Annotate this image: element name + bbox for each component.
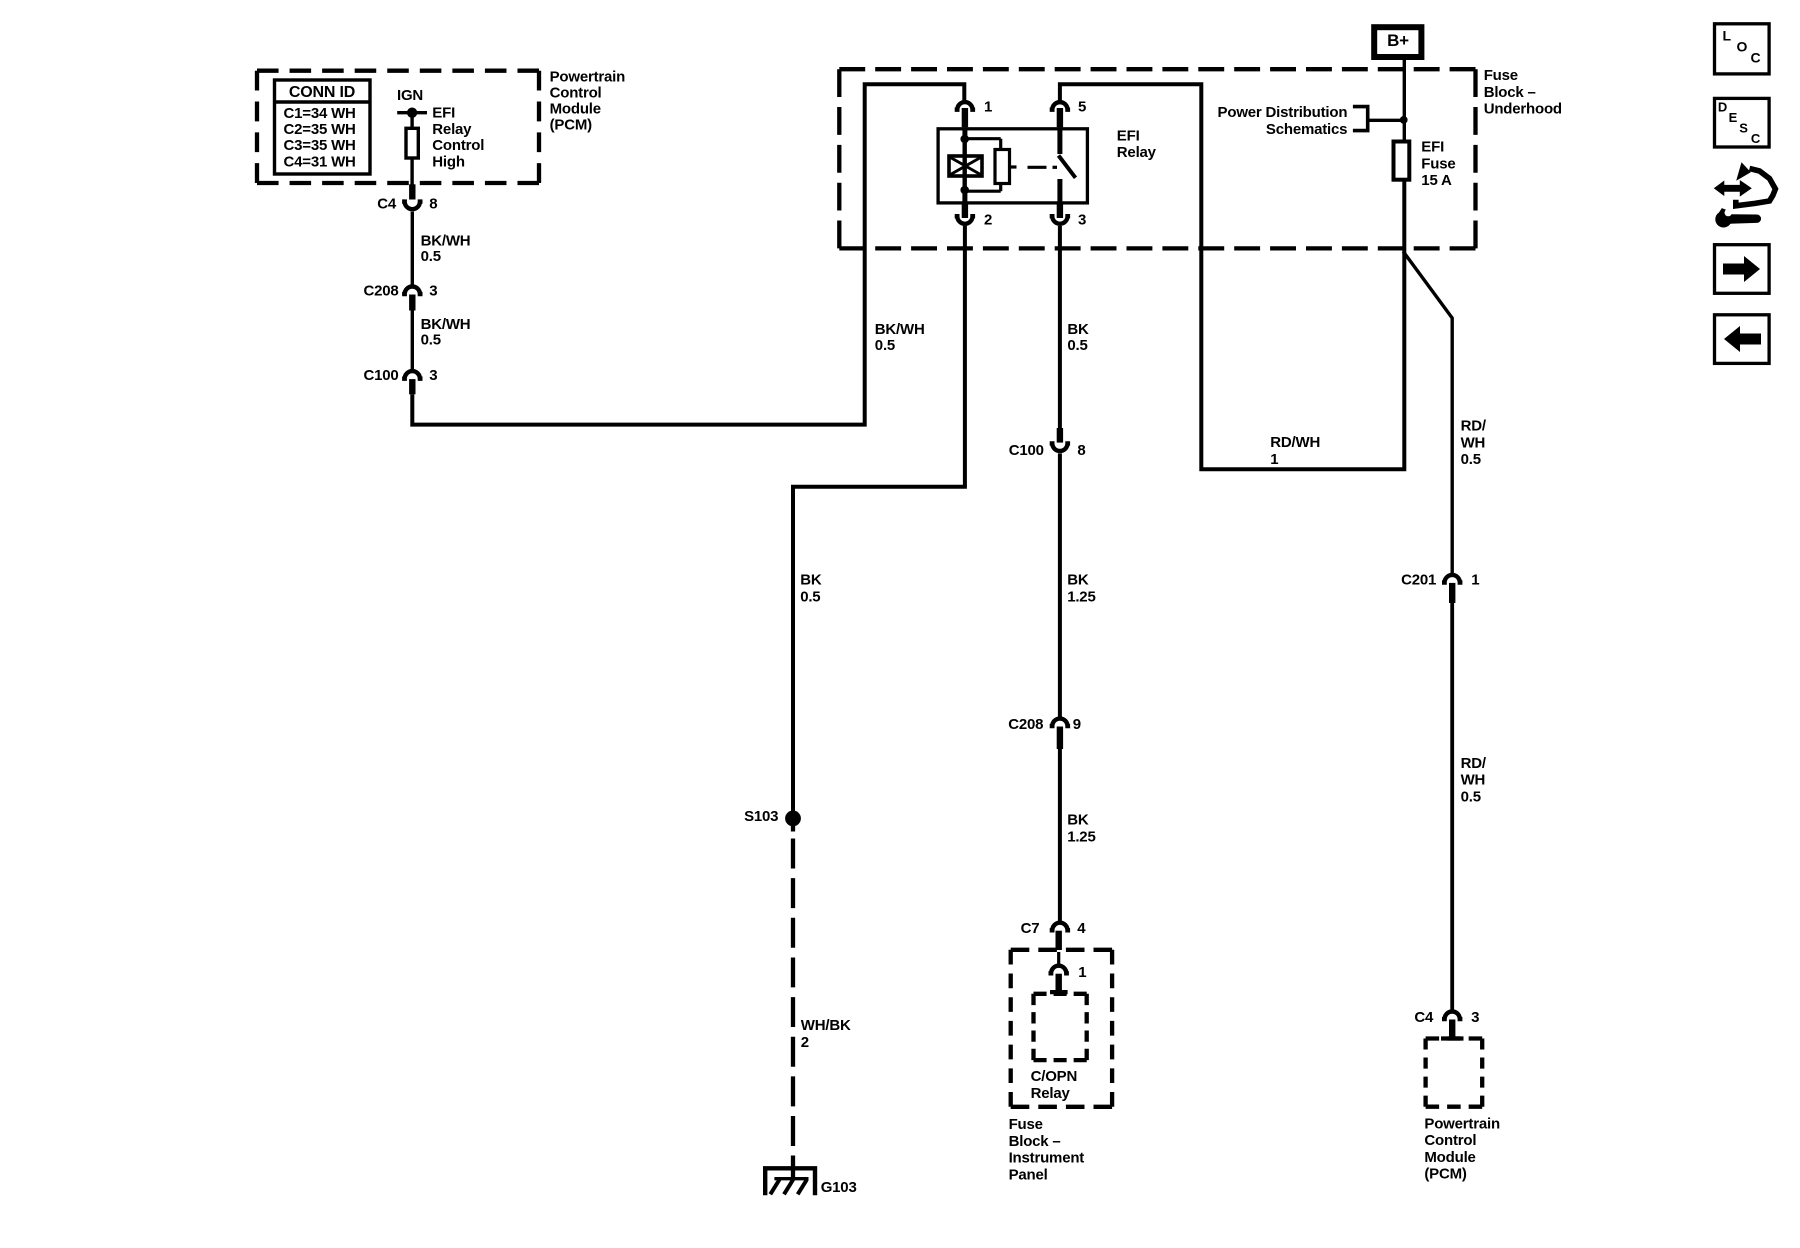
svg-text:8: 8	[1077, 442, 1085, 459]
icon shortcut (loop arrow with wrench)	[1714, 162, 1776, 227]
svg-text:High: High	[432, 154, 465, 171]
ground G103	[765, 1168, 856, 1196]
connector C208 pin 3	[363, 283, 437, 300]
svg-text:Control: Control	[550, 85, 602, 102]
svg-text:1.25: 1.25	[1067, 828, 1095, 845]
connector C100 pin 3	[363, 367, 437, 384]
wire C7-4 into fuse block	[1057, 952, 1060, 965]
svg-text:C100: C100	[1009, 442, 1044, 459]
svg-text:C2=35 WH: C2=35 WH	[284, 121, 356, 138]
svg-text:Fuse: Fuse	[1484, 67, 1518, 84]
svg-text:Powertrain: Powertrain	[1424, 1116, 1500, 1133]
svg-text:5: 5	[1078, 98, 1086, 115]
svg-text:3: 3	[1078, 211, 1086, 228]
svg-text:O: O	[1737, 39, 1748, 55]
svg-text:Relay: Relay	[1031, 1085, 1071, 1102]
svg-text:Powertrain: Powertrain	[550, 69, 626, 86]
connector C4 pin 3 (PCM)	[1414, 1009, 1479, 1026]
label C/OPN Relay	[1031, 1068, 1078, 1102]
svg-text:C201: C201	[1401, 571, 1436, 588]
pin 2 internal wire	[962, 189, 967, 205]
connector pin 2 of EFI relay	[955, 211, 992, 228]
wire RD/WH 1 (fuse output to relay pin 5)	[1060, 84, 1404, 469]
terminal B+	[1374, 27, 1421, 57]
relay EFI Relay outline	[938, 129, 1087, 203]
connector C201 pin 1	[1401, 571, 1479, 588]
node junction top (coil/resistor)	[960, 135, 969, 144]
svg-text:C/OPN: C/OPN	[1031, 1068, 1078, 1085]
label Fuse Block - Instrument Panel	[1009, 1116, 1085, 1183]
wire B+ to fuse	[1403, 57, 1406, 141]
svg-text:WH: WH	[1461, 772, 1486, 789]
svg-text:0.5: 0.5	[800, 588, 820, 605]
wire RD/WH 0.5 (C201 to PCM C4-3)	[1452, 603, 1487, 1012]
connector pin 1 of EFI relay	[955, 98, 992, 115]
module: Fuse Block - Instrument Panel dashed box	[1011, 950, 1112, 1107]
label EFI Relay Control High	[432, 104, 484, 170]
svg-text:Instrument: Instrument	[1009, 1150, 1085, 1167]
connector C208 pin 9	[1008, 716, 1081, 733]
svg-text:C4: C4	[1414, 1009, 1434, 1026]
resistor tap to switch actuator	[1010, 165, 1017, 168]
svg-text:BK: BK	[1067, 321, 1089, 338]
svg-text:2: 2	[984, 211, 992, 228]
svg-text:1: 1	[984, 98, 992, 115]
icon DESC button	[1715, 98, 1770, 147]
svg-text:CONN ID: CONN ID	[289, 84, 355, 101]
label Powertrain Control Module (PCM) bottom right	[1424, 1116, 1500, 1183]
relay C/OPN Relay dashed box	[1034, 994, 1087, 1060]
pin 1 internal wire	[962, 127, 967, 140]
svg-text:0.5: 0.5	[421, 331, 441, 348]
svg-text:RD/: RD/	[1461, 418, 1487, 435]
pin stub C208-9	[1057, 727, 1063, 750]
svg-text:Fuse: Fuse	[1421, 155, 1455, 172]
svg-text:C208: C208	[363, 283, 398, 300]
svg-text:WH/BK: WH/BK	[801, 1017, 851, 1034]
svg-text:15 A: 15 A	[1421, 172, 1452, 189]
resistor inside relay	[995, 150, 1010, 184]
pin stub 1	[962, 108, 968, 127]
pin stub C100-3	[409, 379, 415, 394]
label EFI Fuse 15 A	[1421, 139, 1455, 189]
switch blade	[1059, 156, 1076, 178]
svg-text:C1=34 WH: C1=34 WH	[284, 105, 356, 122]
icon next (right arrow) button	[1715, 245, 1770, 294]
node IGN (ignition feed inside PCM)	[397, 87, 427, 118]
module: Powertrain Control Module (PCM) dashed box bottom right	[1426, 1039, 1483, 1107]
svg-text:1: 1	[1471, 571, 1479, 588]
svg-text:C208: C208	[1008, 716, 1043, 733]
node junction bottom (coil/resistor)	[960, 186, 969, 195]
svg-text:3: 3	[1471, 1009, 1479, 1026]
svg-text:(PCM): (PCM)	[1424, 1166, 1467, 1183]
svg-text:BK: BK	[1067, 572, 1089, 589]
wire through coil	[963, 139, 967, 189]
wire BK/WH 0.5 (C100-3 to relay pin 1) with corner route	[412, 84, 964, 424]
svg-text:2: 2	[801, 1034, 809, 1051]
connector pin 1 (fuse block IP)	[1049, 964, 1087, 981]
svg-text:Panel: Panel	[1009, 1166, 1048, 1183]
pin stub C201-1	[1449, 583, 1455, 603]
module: Powertrain Control Module (PCM) dashed box	[257, 71, 539, 183]
svg-text:0.5: 0.5	[1067, 337, 1087, 354]
wire junction to resistor top	[965, 139, 1001, 151]
svg-text:Control: Control	[1424, 1132, 1476, 1149]
svg-text:L: L	[1723, 28, 1732, 44]
switch fixed contact top (pin 5)	[1057, 127, 1062, 154]
svg-text:Underhood: Underhood	[1484, 101, 1562, 118]
resistor: EFI relay control driver	[406, 128, 418, 158]
pin stub C7-4	[1055, 931, 1061, 950]
svg-text:C100: C100	[363, 367, 398, 384]
dashed actuator link	[1028, 166, 1058, 169]
pin stub C4-3	[1449, 1020, 1455, 1038]
connector C100 pin 8	[1009, 442, 1086, 459]
icon back (left arrow) button	[1715, 315, 1770, 364]
svg-text:9: 9	[1073, 716, 1081, 733]
svg-text:Schematics: Schematics	[1266, 121, 1347, 138]
pin stub 3	[1057, 205, 1063, 219]
svg-text:IGN: IGN	[397, 87, 423, 104]
svg-text:EFI: EFI	[1421, 139, 1444, 156]
wire BK 1.25 (C208-9 to C7-4)	[1060, 749, 1096, 923]
wire RD/WH 0.5 (fuse output to C201) diagonal branch	[1403, 252, 1487, 576]
svg-text:G103: G103	[821, 1179, 857, 1196]
svg-text:EFI: EFI	[432, 104, 455, 121]
connector pin 5 of EFI relay	[1050, 98, 1086, 115]
svg-text:WH: WH	[1461, 434, 1486, 451]
svg-text:Block –: Block –	[1009, 1133, 1061, 1150]
reference Power Distribution Schematics (bracket)	[1218, 104, 1402, 138]
svg-text:Module: Module	[1424, 1149, 1475, 1166]
svg-text:RD/: RD/	[1461, 755, 1487, 772]
svg-text:0.5: 0.5	[421, 248, 441, 265]
coil of EFI relay (crossed box)	[949, 156, 982, 176]
wire BK/WH 0.5 (C4-8 to C208-3)	[412, 212, 470, 286]
svg-text:8: 8	[429, 195, 437, 212]
connector C7 pin 4	[1021, 920, 1087, 937]
label Powertrain Control Module (PCM)	[550, 69, 626, 134]
svg-text:(PCM): (PCM)	[550, 116, 593, 133]
svg-text:C: C	[1751, 131, 1761, 146]
svg-text:S103: S103	[744, 808, 778, 825]
svg-text:Relay: Relay	[432, 121, 472, 138]
node junction at power distribution tap	[1400, 116, 1408, 124]
wire driver to C4 pin 8	[410, 158, 413, 186]
svg-text:Module: Module	[550, 101, 601, 118]
wire BK 1.25 (C100-8 to C208-9)	[1060, 453, 1096, 718]
svg-text:C7: C7	[1021, 920, 1040, 937]
switch fixed contact bottom (pin 3)	[1057, 179, 1062, 205]
svg-text:C3=35 WH: C3=35 WH	[284, 137, 356, 154]
wire WH/BK 2 dashed (S103 to G103)	[793, 826, 851, 1179]
svg-text:BK: BK	[800, 572, 822, 589]
pin stub C100-8	[1057, 428, 1063, 443]
svg-text:Block –: Block –	[1484, 84, 1536, 101]
svg-text:4: 4	[1077, 920, 1086, 937]
svg-text:EFI: EFI	[1117, 128, 1140, 145]
pin stub C4-8	[409, 184, 415, 199]
pin stub 5	[1057, 108, 1063, 127]
svg-text:D: D	[1718, 99, 1727, 114]
label EFI Relay	[1117, 128, 1157, 162]
wire IGN to driver	[410, 113, 413, 129]
fuse EFI Fuse 15 A	[1394, 142, 1410, 180]
svg-text:B+: B+	[1387, 31, 1409, 50]
icon LOC button	[1715, 24, 1770, 74]
svg-text:S: S	[1739, 120, 1748, 135]
svg-text:1.25: 1.25	[1067, 588, 1095, 605]
svg-text:C: C	[1751, 50, 1761, 66]
wire BK/WH 0.5 (C208-3 to C100-3)	[412, 311, 470, 371]
svg-text:3: 3	[429, 367, 437, 384]
svg-text:BK/WH: BK/WH	[421, 232, 471, 249]
svg-text:E: E	[1729, 110, 1738, 125]
module: Fuse Block - Underhood dashed box	[839, 69, 1475, 248]
svg-text:1: 1	[1270, 451, 1278, 468]
svg-text:Control: Control	[432, 137, 484, 154]
svg-text:0.5: 0.5	[1461, 788, 1481, 805]
svg-text:RD/WH: RD/WH	[1270, 434, 1320, 451]
svg-text:BK: BK	[1067, 812, 1089, 829]
table CONN ID	[275, 80, 371, 174]
svg-text:Power Distribution: Power Distribution	[1218, 104, 1348, 121]
svg-text:C4: C4	[377, 195, 397, 212]
svg-text:C4=31 WH: C4=31 WH	[284, 153, 356, 170]
wire BK 0.5 (relay pin 3 to C100-8)	[1060, 226, 1089, 430]
pin stub IP-1	[1050, 974, 1068, 992]
label Fuse Block - Underhood	[1484, 67, 1562, 118]
svg-text:BK/WH: BK/WH	[875, 321, 925, 338]
svg-text:BK/WH: BK/WH	[421, 316, 471, 333]
pin stub 2	[962, 205, 968, 219]
pin stub C208-3	[409, 295, 415, 311]
svg-text:3: 3	[429, 283, 437, 300]
svg-text:Relay: Relay	[1117, 144, 1157, 161]
svg-text:Fuse: Fuse	[1009, 1116, 1043, 1133]
svg-text:0.5: 0.5	[1461, 451, 1481, 468]
wire BK 0.5 (relay pin 2 to S103)	[793, 226, 965, 812]
svg-text:0.5: 0.5	[875, 337, 895, 354]
wire resistor bottom to junction	[965, 184, 1001, 192]
splice S103	[744, 808, 801, 826]
svg-text:1: 1	[1078, 964, 1086, 981]
connector pin 3 of EFI relay	[1050, 211, 1086, 228]
connector C4 pin 8	[377, 195, 437, 212]
